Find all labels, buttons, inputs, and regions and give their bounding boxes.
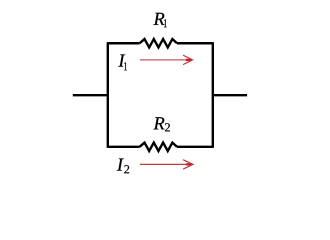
wire left lead: [73, 94, 108, 96]
label R2 letter R: [153, 117, 164, 129]
resistor R1: [140, 39, 177, 47]
wire left vertical: [107, 42, 109, 148]
current arrow I1 shaft: [140, 59, 192, 61]
wire bottom left segment: [108, 146, 140, 148]
label I1 letter I: [118, 55, 125, 67]
label R1 letter R: [153, 13, 164, 25]
label R1 subscript 1: [164, 19, 167, 27]
current arrow I2 head core: [186, 163, 192, 165]
label R2 subscript 2: [165, 123, 170, 131]
wire top left segment: [108, 42, 140, 44]
wire bottom right segment: [177, 146, 213, 148]
wire right lead: [213, 94, 247, 96]
current arrow I2 shaft: [140, 163, 193, 165]
current arrow I2 head: [184, 160, 193, 169]
resistor R2: [140, 143, 177, 151]
current arrow I1 head: [184, 55, 193, 64]
wire right vertical: [212, 42, 214, 148]
label I1 subscript 1: [124, 62, 127, 70]
label I2 subscript 2: [124, 165, 129, 173]
wire top right segment: [177, 42, 213, 44]
current arrow I1 head core: [186, 59, 192, 61]
label I2 letter I: [117, 159, 124, 171]
